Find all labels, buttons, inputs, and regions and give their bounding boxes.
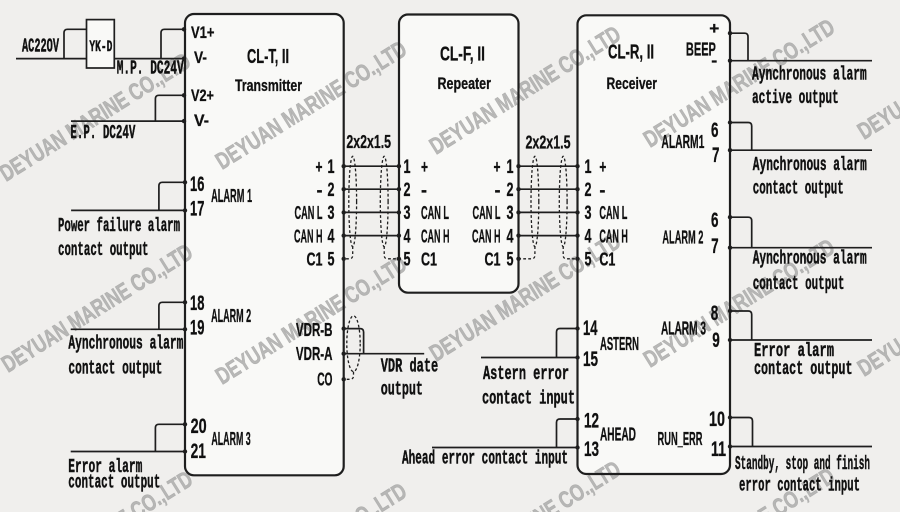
svg-text:-: - <box>421 180 427 200</box>
svg-text:2: 2 <box>507 180 514 201</box>
svg-text:10: 10 <box>709 408 725 431</box>
svg-text:ASTERN: ASTERN <box>600 334 639 354</box>
svg-text:VDR-A: VDR-A <box>296 344 333 364</box>
svg-text:active output: active output <box>752 87 839 109</box>
svg-text:15: 15 <box>583 348 598 371</box>
svg-text:3: 3 <box>507 203 514 224</box>
svg-text:+: + <box>599 157 606 177</box>
svg-text:C1: C1 <box>421 250 437 270</box>
svg-text:17: 17 <box>190 198 204 221</box>
svg-text:Aynchronous alarm: Aynchronous alarm <box>753 248 867 270</box>
svg-text:error contact input: error contact input <box>739 475 860 497</box>
svg-text:21: 21 <box>191 440 207 463</box>
svg-text:M.P. DC24V: M.P. DC24V <box>117 57 184 79</box>
svg-text:contact input: contact input <box>482 388 575 410</box>
svg-text:CAN L: CAN L <box>473 203 501 223</box>
svg-text:CL-R, II: CL-R, II <box>608 41 654 63</box>
svg-text:CAN L: CAN L <box>599 203 627 223</box>
svg-text:-: - <box>599 180 605 200</box>
svg-text:+: + <box>709 19 719 38</box>
svg-text:7: 7 <box>712 144 720 167</box>
svg-text:2x2x1.5: 2x2x1.5 <box>526 133 571 153</box>
svg-text:C1: C1 <box>307 250 323 270</box>
svg-text:8: 8 <box>711 302 719 325</box>
svg-text:ALARM1: ALARM1 <box>661 132 704 152</box>
svg-text:contact output: contact output <box>753 178 844 200</box>
svg-text:4: 4 <box>404 226 411 247</box>
svg-text:VDR-B: VDR-B <box>296 320 333 340</box>
svg-text:contact output: contact output <box>754 358 853 380</box>
svg-text:2: 2 <box>585 180 592 201</box>
svg-text:1: 1 <box>507 157 514 178</box>
svg-text:Ahead error contact input: Ahead error contact input <box>402 448 568 470</box>
svg-text:V-: V- <box>194 48 207 67</box>
svg-text:Transmitter: Transmitter <box>235 76 302 95</box>
svg-text:-: - <box>317 180 323 200</box>
svg-text:CO: CO <box>317 370 332 390</box>
svg-text:9: 9 <box>712 329 720 352</box>
svg-text:3: 3 <box>404 203 411 224</box>
svg-text:5: 5 <box>404 250 411 271</box>
svg-text:Aynchronous alarm: Aynchronous alarm <box>752 64 867 86</box>
svg-text:VDR date: VDR date <box>381 356 439 378</box>
svg-text:CAN H: CAN H <box>421 226 450 246</box>
svg-text:13: 13 <box>584 438 599 461</box>
svg-text:4: 4 <box>585 226 592 247</box>
svg-text:CL-F, II: CL-F, II <box>440 44 485 66</box>
svg-text:1: 1 <box>328 157 335 178</box>
svg-text:Power failure alarm: Power failure alarm <box>58 215 180 237</box>
svg-text:V2+: V2+ <box>191 86 214 105</box>
svg-text:1: 1 <box>585 157 592 178</box>
svg-text:Aynchronous alarm: Aynchronous alarm <box>68 332 183 354</box>
svg-text:CL-T, II: CL-T, II <box>247 46 289 68</box>
svg-text:5: 5 <box>585 250 592 271</box>
svg-text:Aynchronous alarm: Aynchronous alarm <box>753 154 867 176</box>
svg-text:contact output: contact output <box>68 358 162 380</box>
svg-text:5: 5 <box>328 250 335 271</box>
svg-text:AHEAD: AHEAD <box>600 425 636 445</box>
svg-text:ALARM 3: ALARM 3 <box>211 429 250 449</box>
svg-text:12: 12 <box>584 410 599 433</box>
svg-text:Astern error: Astern error <box>483 363 569 385</box>
svg-text:+: + <box>316 157 323 177</box>
svg-text:E.P. DC24V: E.P. DC24V <box>70 122 135 144</box>
svg-text:CAN H: CAN H <box>472 226 501 246</box>
svg-text:ALARM 3: ALARM 3 <box>661 318 706 338</box>
svg-text:3: 3 <box>328 203 335 224</box>
svg-text:contact output: contact output <box>68 472 160 494</box>
svg-text:Standby, stop and finish: Standby, stop and finish <box>735 453 870 475</box>
svg-text:ALARM 2: ALARM 2 <box>662 228 703 248</box>
svg-text:14: 14 <box>583 317 598 340</box>
svg-text:CAN L: CAN L <box>295 203 323 223</box>
svg-text:Repeater: Repeater <box>438 74 492 93</box>
svg-text:V-: V- <box>194 111 209 130</box>
svg-text:AC22OV: AC22OV <box>22 35 59 57</box>
svg-text:contact output: contact output <box>58 239 149 261</box>
svg-text:C1: C1 <box>485 250 501 270</box>
svg-text:7: 7 <box>711 235 719 258</box>
svg-text:output: output <box>381 379 423 401</box>
svg-text:6: 6 <box>711 119 719 142</box>
svg-text:-: - <box>711 51 717 70</box>
svg-text:C1: C1 <box>599 250 615 270</box>
svg-text:19: 19 <box>190 316 204 339</box>
svg-text:1: 1 <box>404 157 411 178</box>
svg-text:2: 2 <box>328 180 335 201</box>
svg-text:contact output: contact output <box>753 273 845 295</box>
svg-text:16: 16 <box>190 173 204 196</box>
svg-text:3: 3 <box>585 203 592 224</box>
svg-text:20: 20 <box>191 415 207 438</box>
svg-text:YK-D: YK-D <box>89 38 112 56</box>
svg-text:RUN_ERR: RUN_ERR <box>658 429 703 449</box>
svg-text:CAN L: CAN L <box>421 203 449 223</box>
svg-text:ALARM 1: ALARM 1 <box>211 186 252 206</box>
svg-text:CAN H: CAN H <box>294 226 323 246</box>
svg-text:+: + <box>421 157 428 177</box>
svg-text:4: 4 <box>507 226 514 247</box>
svg-text:-: - <box>495 180 501 200</box>
svg-text:6: 6 <box>711 209 719 232</box>
svg-text:18: 18 <box>190 292 205 315</box>
svg-text:CAN H: CAN H <box>599 226 628 246</box>
svg-text:4: 4 <box>328 226 335 247</box>
svg-text:5: 5 <box>507 250 514 271</box>
svg-text:Receiver: Receiver <box>607 74 658 93</box>
svg-text:11: 11 <box>711 438 726 461</box>
svg-text:+: + <box>494 157 501 177</box>
svg-text:2x2x1.5: 2x2x1.5 <box>346 132 391 152</box>
svg-text:V1+: V1+ <box>191 23 215 42</box>
svg-text:ALARM 2: ALARM 2 <box>211 306 251 326</box>
svg-text:2: 2 <box>404 180 411 201</box>
